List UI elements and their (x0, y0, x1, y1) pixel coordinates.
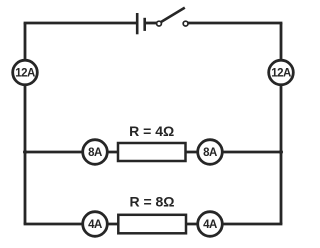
battery B1 (137, 13, 156, 34)
resistor R2 (118, 215, 186, 234)
resistor R1 (118, 143, 186, 161)
svg-text:4A: 4A (203, 219, 217, 231)
ammeter A2 12A right (269, 60, 294, 85)
ammeter A4 8A right (198, 140, 223, 165)
wire top-right segment (188, 22, 282, 25)
node junction right (279, 150, 283, 154)
ammeter A3 8A left (83, 140, 108, 165)
svg-text:4A: 4A (88, 219, 102, 231)
wire top-left segment (24, 22, 137, 25)
svg-text:8A: 8A (203, 147, 217, 159)
wire middle branch (25, 151, 281, 154)
ammeter A1 12A left (13, 60, 38, 85)
ammeter A5 4A left (83, 212, 108, 237)
wire right vertical (280, 23, 283, 224)
svg-text:R = 8Ω: R = 8Ω (129, 194, 174, 210)
wire bottom branch (24, 223, 283, 226)
node junction left (23, 150, 27, 154)
svg-text:8A: 8A (88, 147, 102, 159)
ammeter A6 4A right (198, 212, 223, 237)
svg-text:R = 4Ω: R = 4Ω (129, 123, 174, 139)
wire left vertical (24, 23, 27, 224)
svg-text:12A: 12A (15, 68, 35, 80)
svg-text:12A: 12A (271, 68, 291, 80)
switch S1 (157, 8, 188, 26)
